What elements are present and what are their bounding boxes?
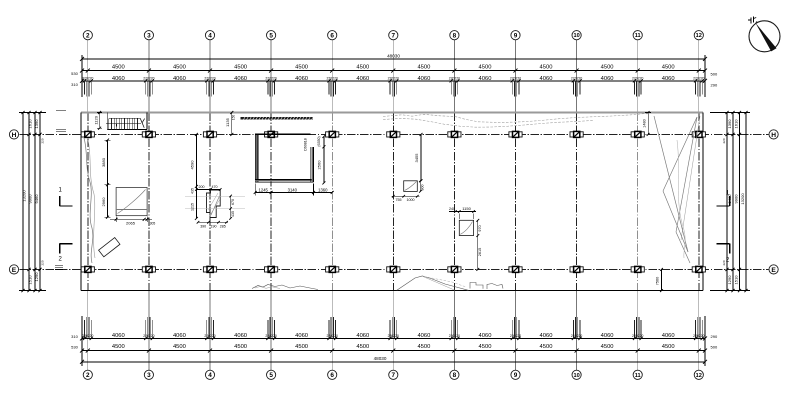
svg-text:190: 190 xyxy=(211,225,217,229)
svg-text:4500: 4500 xyxy=(173,65,186,71)
grid bubble axis 7 bottom xyxy=(389,370,398,379)
svg-text:200: 200 xyxy=(199,185,205,189)
svg-text:1510: 1510 xyxy=(734,275,739,285)
grid line axis 2 xyxy=(87,40,89,370)
svg-text:220: 220 xyxy=(41,138,45,143)
svg-text:500: 500 xyxy=(711,344,718,349)
grid bubble axis 10 top xyxy=(572,31,581,40)
svg-text:4060: 4060 xyxy=(479,333,492,339)
svg-text:670: 670 xyxy=(231,199,235,205)
svg-text:(6350): (6350) xyxy=(317,136,321,146)
grid bubble axis 5 bottom xyxy=(267,370,276,379)
svg-text:435: 435 xyxy=(231,211,235,217)
section mark 1 right xyxy=(717,191,730,207)
svg-text:970: 970 xyxy=(478,225,482,231)
axis E bubble left xyxy=(9,265,18,274)
room bottom dims 1245 3140 1360 xyxy=(254,184,334,196)
svg-text:4500: 4500 xyxy=(540,65,553,71)
svg-text:4500: 4500 xyxy=(662,344,675,350)
grid bubble axis 10 bottom xyxy=(572,370,581,379)
svg-text:1150: 1150 xyxy=(462,206,471,211)
svg-text:1245: 1245 xyxy=(259,187,269,192)
axis8 dim 800 xyxy=(419,180,424,193)
stair width dimension 1120 xyxy=(94,111,103,130)
svg-text:4060: 4060 xyxy=(234,76,247,82)
column axis 10 row H xyxy=(570,131,583,137)
left dimension chain lines xyxy=(19,111,46,292)
svg-text:4500: 4500 xyxy=(295,344,308,350)
svg-text:4500: 4500 xyxy=(234,344,247,350)
svg-text:240: 240 xyxy=(449,207,455,211)
svg-text:E: E xyxy=(771,267,776,274)
svg-text:310: 310 xyxy=(71,334,78,339)
svg-text:4500: 4500 xyxy=(479,65,492,71)
column axis 4 row H xyxy=(203,131,216,137)
svg-text:9460: 9460 xyxy=(34,194,39,204)
grid bubble axis 11 top xyxy=(633,31,642,40)
room dim 2560 xyxy=(317,135,326,185)
dim 1480 near axis 11 xyxy=(642,111,651,136)
grid line axis 9 xyxy=(515,40,517,370)
svg-text:9: 9 xyxy=(514,372,518,379)
svg-text:530: 530 xyxy=(71,344,78,349)
svg-text:7: 7 xyxy=(392,372,396,379)
column axis 2 row H xyxy=(81,131,94,137)
svg-text:E: E xyxy=(12,267,17,274)
bottom total dimension 48030 xyxy=(374,356,387,361)
grid bubble axis 11 bottom xyxy=(633,370,642,379)
rotated rectangle object xyxy=(99,238,120,257)
svg-text:4060: 4060 xyxy=(601,333,614,339)
grid bubble axis 2 bottom xyxy=(83,370,92,379)
svg-text:3: 3 xyxy=(147,372,151,379)
svg-text:4060: 4060 xyxy=(540,333,553,339)
svg-text:4500: 4500 xyxy=(112,65,125,71)
svg-text:5: 5 xyxy=(269,33,273,40)
grid bubble axis 8 top xyxy=(450,31,459,40)
svg-text:3880: 3880 xyxy=(101,157,106,167)
grid bubble axis 12 top xyxy=(694,31,703,40)
room door label D60818 xyxy=(304,138,308,151)
svg-text:4500: 4500 xyxy=(417,65,430,71)
svg-text:4060: 4060 xyxy=(173,333,186,339)
svg-text:4060: 4060 xyxy=(417,76,430,82)
svg-text:4500: 4500 xyxy=(417,344,430,350)
grid bubble axis 9 bottom xyxy=(511,370,520,379)
left edge tick marks near H xyxy=(56,111,66,132)
axis8 dim 3455 xyxy=(414,133,422,182)
grid bubble axis 3 bottom xyxy=(144,370,153,379)
room dim (6350) xyxy=(317,136,321,146)
grid bubble axis 7 top xyxy=(389,31,398,40)
grid bubble axis 3 top xyxy=(144,31,153,40)
grid line axis 10 xyxy=(576,40,578,370)
grid bubble axis 12 bottom xyxy=(694,370,703,379)
dims 3880 2960 xyxy=(101,139,111,219)
bottom dimension texts 220 at grids xyxy=(82,334,704,338)
hatched canopy strip xyxy=(241,117,314,120)
svg-text:4590: 4590 xyxy=(189,160,194,170)
svg-text:4060: 4060 xyxy=(356,76,369,82)
grid bubble axis 6 bottom xyxy=(328,370,337,379)
column axis 12 row E xyxy=(692,266,705,272)
svg-text:10: 10 xyxy=(573,373,579,379)
grid line axis 7 xyxy=(392,40,394,370)
bottom dimension lines xyxy=(82,316,705,366)
svg-text:290: 290 xyxy=(711,82,718,87)
column axis 9 row E xyxy=(509,266,522,272)
grid line axis 5 xyxy=(270,40,272,370)
top dimension ticks xyxy=(80,57,707,97)
svg-text:4500: 4500 xyxy=(540,344,553,350)
axis E bubble right xyxy=(769,265,778,274)
column axis 5 row H xyxy=(265,131,278,137)
grid bubble axis 5 top xyxy=(267,31,276,40)
svg-text:5: 5 xyxy=(269,372,273,379)
axis4 pier detail xyxy=(185,190,245,218)
svg-text:12: 12 xyxy=(696,373,702,379)
svg-text:4500: 4500 xyxy=(295,65,308,71)
svg-text:4060: 4060 xyxy=(601,76,614,82)
svg-text:4500: 4500 xyxy=(601,65,614,71)
grid line axis 11 xyxy=(637,40,639,370)
svg-text:2615: 2615 xyxy=(478,248,482,256)
dashed ground contours top xyxy=(383,113,650,127)
svg-text:48030: 48030 xyxy=(374,356,387,361)
svg-text:4500: 4500 xyxy=(356,344,369,350)
svg-text:4500: 4500 xyxy=(234,65,247,71)
svg-text:220: 220 xyxy=(41,260,45,265)
svg-text:800: 800 xyxy=(420,185,424,191)
right end diagonal lines xyxy=(654,116,700,263)
svg-text:3455: 3455 xyxy=(414,153,419,163)
svg-text:9: 9 xyxy=(514,33,518,40)
axis4 dims 390 190 285 xyxy=(197,221,228,229)
svg-text:7560: 7560 xyxy=(655,277,659,285)
column axis 6 row H xyxy=(326,131,339,137)
svg-text:4060: 4060 xyxy=(295,333,308,339)
axis4 dims 200 470 xyxy=(195,185,221,191)
axis9 dims 240 1150 xyxy=(449,206,476,219)
svg-text:4500: 4500 xyxy=(479,344,492,350)
svg-text:305: 305 xyxy=(150,222,156,226)
grid line axis 8 xyxy=(453,40,455,370)
top left edge dims 530 310 xyxy=(71,71,78,87)
column axis 3 row H xyxy=(142,131,155,137)
column axis 11 row H xyxy=(631,131,644,137)
svg-text:1290: 1290 xyxy=(727,275,732,285)
svg-text:1000: 1000 xyxy=(407,198,415,202)
grid line axis 12 xyxy=(698,40,700,370)
svg-text:10: 10 xyxy=(573,33,579,39)
axis8 dims 755 1000 xyxy=(392,195,420,202)
bottom dimension texts 4500 xyxy=(112,344,675,350)
svg-text:6: 6 xyxy=(330,33,334,40)
left dimension chain texts xyxy=(22,119,45,285)
svg-text:8: 8 xyxy=(453,372,457,379)
svg-text:1120: 1120 xyxy=(94,115,99,124)
axis H line xyxy=(20,133,769,135)
svg-text:7: 7 xyxy=(392,33,396,40)
section mark 1 left xyxy=(59,188,73,207)
top total dimension 48030 xyxy=(387,53,400,58)
svg-text:6: 6 xyxy=(330,372,334,379)
svg-text:4500: 4500 xyxy=(356,65,369,71)
building left edge wall xyxy=(80,113,82,291)
building top edge wall xyxy=(81,112,703,114)
svg-text:150: 150 xyxy=(232,115,236,121)
svg-text:3: 3 xyxy=(147,33,151,40)
right dimension chain texts xyxy=(722,119,745,285)
grid bubble axis 4 bottom xyxy=(205,370,214,379)
svg-text:285: 285 xyxy=(220,225,226,229)
axis4 dims 670 435 xyxy=(229,195,235,220)
svg-text:11: 11 xyxy=(635,373,641,379)
column axis 3 row E xyxy=(142,266,155,272)
svg-text:1390: 1390 xyxy=(727,119,732,129)
axis E line xyxy=(20,268,769,270)
grid bubble axis 6 top xyxy=(328,31,337,40)
svg-text:1510: 1510 xyxy=(28,275,33,285)
top dimension texts 4060 xyxy=(112,76,675,82)
column axis 10 row E xyxy=(570,266,583,272)
svg-text:4060: 4060 xyxy=(479,76,492,82)
svg-text:4060: 4060 xyxy=(112,76,125,82)
window square 2065 xyxy=(110,188,155,226)
svg-text:1610: 1610 xyxy=(734,119,739,129)
svg-text:4060: 4060 xyxy=(112,333,125,339)
column axis 8 row H xyxy=(448,131,461,137)
svg-text:2960: 2960 xyxy=(101,197,106,207)
axis9 square detail xyxy=(459,220,473,235)
svg-text:8: 8 xyxy=(453,33,457,40)
svg-text:310: 310 xyxy=(71,82,78,87)
svg-text:755: 755 xyxy=(396,198,402,202)
column axis 8 row E xyxy=(448,266,461,272)
svg-text:H: H xyxy=(12,132,17,139)
left edge tick marks near E xyxy=(55,266,63,270)
svg-text:4500: 4500 xyxy=(662,65,675,71)
svg-text:1290: 1290 xyxy=(34,272,39,282)
grid bubble axis 9 top xyxy=(511,31,520,40)
svg-text:1215: 1215 xyxy=(190,203,194,211)
axis4 dims 4590 435 1215 xyxy=(189,133,198,220)
grid bubble axis 4 top xyxy=(205,31,214,40)
svg-text:220: 220 xyxy=(722,138,726,143)
svg-text:D60818: D60818 xyxy=(304,138,308,151)
ground bumps bottom left xyxy=(252,285,318,290)
svg-text:2560: 2560 xyxy=(317,160,322,170)
svg-text:11: 11 xyxy=(635,33,641,39)
svg-text:2065: 2065 xyxy=(126,221,136,226)
grid line axis 3 xyxy=(148,40,150,370)
svg-text:4060: 4060 xyxy=(417,333,430,339)
column axis 9 row H xyxy=(509,131,522,137)
svg-text:13200: 13200 xyxy=(22,190,27,202)
column axis 11 row E xyxy=(631,266,644,272)
column axis 6 row E xyxy=(326,266,339,272)
svg-text:4060: 4060 xyxy=(540,76,553,82)
svg-text:4500: 4500 xyxy=(112,344,125,350)
ground steps bottom xyxy=(470,283,503,290)
svg-text:2: 2 xyxy=(86,372,90,379)
bottom dimension texts 4060 xyxy=(112,333,675,339)
top right edge dims 500 290 xyxy=(711,72,718,88)
dim 7560 bottom right xyxy=(655,268,663,292)
room hatched walls xyxy=(255,134,313,183)
svg-text:290: 290 xyxy=(711,334,718,339)
svg-text:1610: 1610 xyxy=(28,119,33,129)
section mark 2 right xyxy=(717,244,730,264)
svg-text:1480: 1480 xyxy=(642,119,646,127)
svg-text:1135: 1135 xyxy=(225,117,230,126)
bottom right edge dims 290 500 xyxy=(711,334,718,350)
grid bubble axis 2 top xyxy=(83,31,92,40)
svg-text:4060: 4060 xyxy=(662,333,675,339)
column axis 4 row E xyxy=(203,266,216,272)
svg-text:4060: 4060 xyxy=(295,76,308,82)
top dimension texts 4500 xyxy=(112,65,675,71)
grid line axis 6 xyxy=(331,40,333,370)
svg-text:1390: 1390 xyxy=(34,119,39,129)
svg-text:390: 390 xyxy=(200,225,206,229)
column axis 7 row E xyxy=(387,266,400,272)
svg-text:530: 530 xyxy=(71,71,78,76)
grid bubble axis 8 bottom xyxy=(450,370,459,379)
svg-text:13200: 13200 xyxy=(740,193,745,205)
svg-text:4060: 4060 xyxy=(173,76,186,82)
right dimension chain lines xyxy=(710,111,750,292)
svg-text:4060: 4060 xyxy=(234,333,247,339)
svg-text:500: 500 xyxy=(711,72,718,77)
svg-text:4060: 4060 xyxy=(356,333,369,339)
top dimension texts 220 at grids xyxy=(82,77,704,81)
svg-text:4500: 4500 xyxy=(601,344,614,350)
north arrow xyxy=(748,17,780,52)
svg-text:3140: 3140 xyxy=(288,187,298,192)
axis H bubble right xyxy=(769,130,778,139)
svg-text:4: 4 xyxy=(208,33,212,40)
bottom dimension ticks xyxy=(80,317,707,364)
bottom left edge dims 310 530 xyxy=(71,334,78,350)
svg-text:4060: 4060 xyxy=(662,76,675,82)
section mark 2 left xyxy=(59,244,73,263)
svg-text:470: 470 xyxy=(212,185,218,189)
svg-text:435: 435 xyxy=(190,188,194,194)
svg-text:9900: 9900 xyxy=(734,194,739,204)
axis H bubble left xyxy=(9,130,18,139)
dimension 1135 near axis 4 xyxy=(225,111,236,136)
crack lines left end xyxy=(84,138,95,263)
column axis 2 row E xyxy=(81,266,94,272)
svg-text:4500: 4500 xyxy=(173,344,186,350)
building right edge wall xyxy=(702,113,704,291)
svg-text:H: H xyxy=(771,132,776,139)
svg-text:1360: 1360 xyxy=(318,187,328,192)
grid line axis 4 xyxy=(209,40,211,370)
top dimension lines xyxy=(82,55,705,97)
building bottom edge wall xyxy=(81,290,703,292)
column axis 7 row H xyxy=(387,131,400,137)
ground mound bottom middle xyxy=(397,276,469,290)
axis8 rect detail xyxy=(404,181,418,192)
svg-text:12: 12 xyxy=(696,33,702,39)
svg-text:4: 4 xyxy=(208,372,212,379)
column axis 5 row E xyxy=(265,266,278,272)
axis9 dims 970 2615 xyxy=(476,219,482,271)
column axis 12 row H xyxy=(692,131,705,137)
svg-text:2: 2 xyxy=(86,33,90,40)
svg-text:9900: 9900 xyxy=(28,194,33,204)
stair top-left xyxy=(106,113,147,130)
svg-text:48030: 48030 xyxy=(387,53,400,58)
